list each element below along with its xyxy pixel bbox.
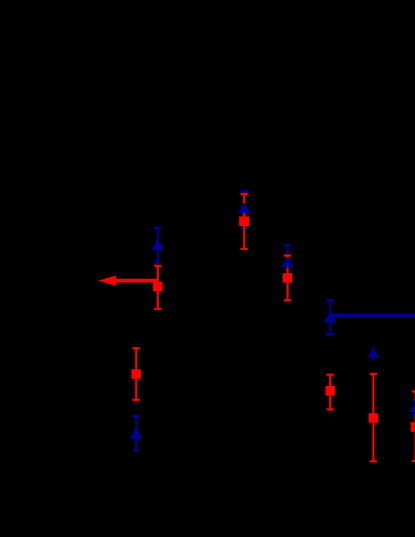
- point E blue error bar (no caps): [372, 347, 374, 361]
- point G blue triangle marker: [130, 428, 143, 439]
- point G red error bar: [133, 347, 140, 401]
- point F blue triangle marker (clipped): [409, 402, 415, 412]
- point F red square marker (clipped): [411, 422, 415, 432]
- point G blue error bar: [133, 415, 140, 452]
- point A red square marker: [153, 282, 163, 292]
- point E red error bar: [370, 373, 377, 463]
- point B red error bar: [241, 193, 248, 250]
- point D red error bar: [327, 374, 334, 411]
- red upper-limit arrow (pointing left): [98, 276, 158, 286]
- point A blue triangle marker: [152, 239, 165, 250]
- point B blue triangle marker: [238, 203, 251, 214]
- point E red square marker: [369, 413, 379, 423]
- point E blue triangle marker: [367, 349, 380, 358]
- point C blue error bar: [284, 244, 291, 282]
- point D red square marker: [325, 386, 335, 396]
- point D blue triangle marker: [324, 312, 337, 323]
- point D blue error bar: [327, 299, 334, 335]
- point G red square marker: [131, 369, 141, 379]
- point F blue error bar (clipped at right edge): [412, 399, 415, 416]
- point C red error bar: [284, 254, 291, 301]
- point F red error bar (clipped at right edge): [412, 390, 415, 462]
- point C blue triangle marker: [281, 257, 294, 268]
- point B blue error bar: [241, 190, 248, 229]
- blue horizontal off-scale line (to right edge): [331, 314, 415, 318]
- point C red square marker: [283, 273, 293, 283]
- point B red square marker: [239, 216, 249, 226]
- point A blue error bar: [154, 227, 161, 264]
- point A red error bar: [154, 265, 161, 310]
